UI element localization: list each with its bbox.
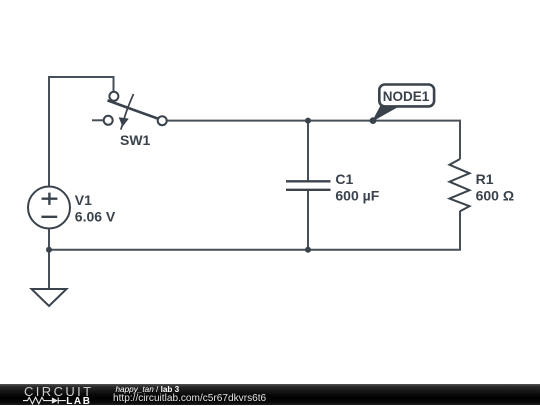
wire: V1 bottom to junction [48,229,50,250]
capacitor C1 [286,181,331,190]
svg-text:C1: C1 [335,171,353,187]
junction dot: C1 bottom [305,247,311,253]
wire: switch right terminal to top-right corner, down to resistor [167,121,460,159]
wire: switch left stub [92,119,104,121]
voltage source V1 [28,187,70,229]
junction dot: C1 top [305,118,311,124]
wire: capacitor top lead [307,121,309,182]
switch right contact [158,116,167,125]
node NODE1 dot [370,117,377,124]
switch left contact [104,116,113,125]
wire: capacitor bottom lead [307,190,309,250]
footer bar [0,384,540,405]
switch SW1 [104,92,167,130]
footer line 1: user / title [116,386,180,394]
resistor R1 [450,159,470,211]
svg-text:600 Ω: 600 Ω [476,188,514,204]
svg-text:6.06 V: 6.06 V [75,209,116,225]
switch top contact [109,92,118,101]
ground [32,289,67,306]
switch arm [108,100,158,118]
wire: junction down to ground [48,250,50,289]
footer line 2: url [113,394,266,404]
wire: V1 top to switch top terminal [49,77,114,187]
switch toggle arc arrow [121,94,134,130]
svg-text:NODE1: NODE1 [383,89,430,104]
CircuitLab logo squiggle (resistor+diode+LAB) [23,395,95,406]
svg-text:LAB: LAB [66,396,91,406]
wire: resistor bottom to bottom-right corner and bottom rail [49,211,460,250]
node NODE1 callout [373,85,434,121]
svg-text:SW1: SW1 [120,132,151,148]
svg-text:R1: R1 [476,171,494,187]
CircuitLab logo text [24,384,94,399]
svg-text:V1: V1 [75,192,92,208]
svg-text:600 µF: 600 µF [335,188,379,204]
junction dot: V1 bottom [46,247,52,253]
